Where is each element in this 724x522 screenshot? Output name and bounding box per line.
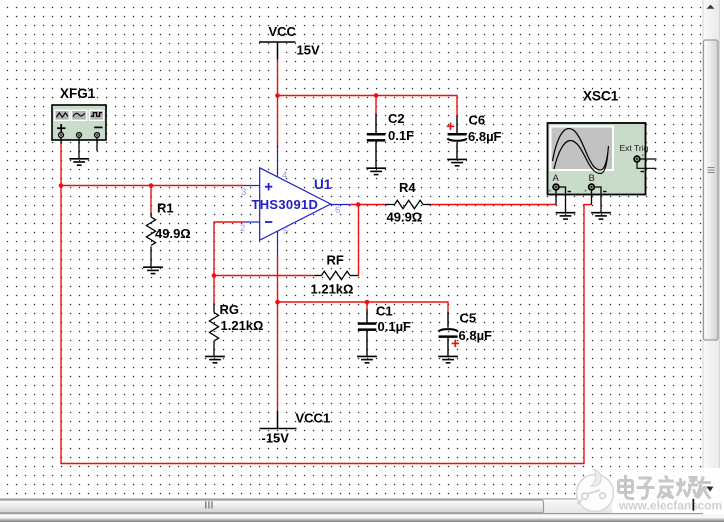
- svg-text:15V: 15V: [297, 43, 320, 58]
- svg-text:6: 6: [335, 205, 340, 216]
- svg-text:C1: C1: [376, 304, 393, 319]
- svg-text:XFG1: XFG1: [60, 86, 96, 101]
- svg-text:com: com: [698, 499, 723, 513]
- svg-text:2: 2: [240, 223, 245, 234]
- svg-text:R4: R4: [399, 180, 416, 195]
- svg-text:B: B: [589, 173, 595, 184]
- svg-text:C6: C6: [469, 113, 486, 128]
- svg-text:6.8µF: 6.8µF: [468, 129, 502, 144]
- svg-text:VCC1: VCC1: [296, 411, 331, 426]
- svg-text:49.9Ω: 49.9Ω: [155, 226, 191, 241]
- svg-text:U1: U1: [314, 177, 332, 192]
- svg-text:RG: RG: [220, 302, 240, 317]
- svg-text:0.1µF: 0.1µF: [378, 319, 412, 334]
- svg-text:-15V: -15V: [262, 431, 290, 446]
- svg-text:RF: RF: [327, 253, 344, 268]
- svg-text:XSC1: XSC1: [583, 89, 619, 104]
- svg-text:C5: C5: [460, 311, 477, 326]
- svg-text:Ext Trig: Ext Trig: [620, 143, 649, 153]
- svg-text:3: 3: [241, 187, 246, 198]
- svg-text:THS3091D: THS3091D: [252, 197, 319, 212]
- svg-text:A: A: [553, 173, 560, 184]
- svg-text:R1: R1: [157, 201, 174, 216]
- svg-text:6.8µF: 6.8µF: [459, 328, 493, 343]
- svg-text:0.1F: 0.1F: [388, 128, 414, 143]
- svg-text:1.21kΩ: 1.21kΩ: [221, 318, 264, 333]
- svg-text:www.elecfans: www.elecfans: [618, 499, 698, 513]
- svg-text:4: 4: [282, 170, 287, 181]
- svg-text:49.9Ω: 49.9Ω: [387, 210, 423, 225]
- svg-text:VCC: VCC: [269, 24, 297, 39]
- svg-text:C2: C2: [388, 111, 405, 126]
- svg-text:1.21kΩ: 1.21kΩ: [311, 282, 354, 297]
- svg-text:5: 5: [283, 226, 288, 237]
